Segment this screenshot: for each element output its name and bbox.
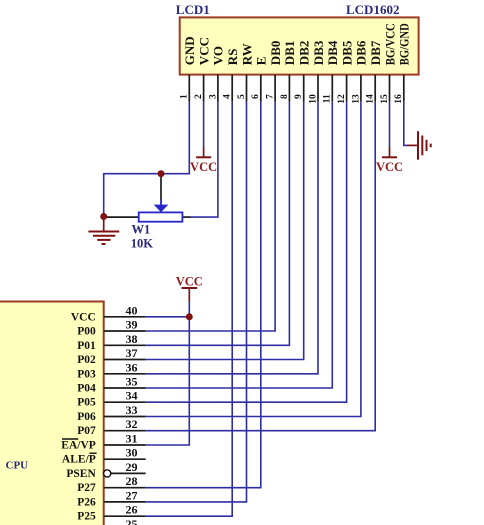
svg-text:7: 7 xyxy=(266,94,276,99)
svg-text:32: 32 xyxy=(126,417,138,431)
svg-text:26: 26 xyxy=(126,503,138,517)
svg-text:P05: P05 xyxy=(77,397,96,409)
LCD pin number 1 xyxy=(180,94,190,99)
CPU pin 28 stub xyxy=(104,487,146,489)
LCD pin 8 stub xyxy=(288,75,290,102)
LCD pin number 3 xyxy=(208,94,218,99)
CPU pin number 31 xyxy=(126,432,138,446)
CPU pin name P27 xyxy=(77,482,96,494)
junction dot at wiper/top wire xyxy=(158,170,165,177)
svg-text:LCD1602: LCD1602 xyxy=(346,2,399,17)
CPU pin 40 stub xyxy=(104,316,146,318)
power symbol VCC (LCD pin15) xyxy=(376,147,403,174)
wire LCD pin4 RS to CPU row 26 xyxy=(146,102,233,517)
svg-text:P26: P26 xyxy=(77,496,96,508)
svg-text:VCC: VCC xyxy=(71,311,96,323)
svg-text:VCC: VCC xyxy=(196,37,211,65)
CPU pin 32 stub xyxy=(104,430,146,432)
wire VCC symbol to row40 junction and down to EA/VP row31 xyxy=(146,301,190,445)
svg-text:36: 36 xyxy=(126,360,138,374)
CPU pin 29 inversion bubble xyxy=(104,470,111,477)
svg-text:RW: RW xyxy=(239,43,254,65)
svg-text:16: 16 xyxy=(394,94,404,104)
CPU pin number 28 xyxy=(126,474,138,488)
svg-text:ALE/P: ALE/P xyxy=(62,454,96,466)
svg-text:34: 34 xyxy=(126,389,138,403)
LCD pin number 10 xyxy=(308,94,318,104)
svg-text:14: 14 xyxy=(366,94,376,104)
svg-text:13: 13 xyxy=(351,94,361,104)
CPU pin number 32 xyxy=(126,417,138,431)
svg-text:27: 27 xyxy=(126,488,138,502)
CPU pin number 40 xyxy=(126,303,138,317)
LCD pin 9 stub xyxy=(303,75,305,102)
LCD pin name DB4 xyxy=(325,40,340,65)
CPU pin name P03 xyxy=(77,368,96,380)
svg-text:39: 39 xyxy=(126,318,138,332)
svg-text:4: 4 xyxy=(223,94,233,99)
CPU pin 29 stub xyxy=(104,472,146,474)
CPU pin number 36 xyxy=(126,360,138,374)
LCD pin number 8 xyxy=(280,94,290,99)
svg-text:37: 37 xyxy=(126,346,138,360)
wire LCD pin13 DB6 to CPU row 33 xyxy=(146,102,361,417)
CPU pin 26 stub xyxy=(104,515,146,517)
wire LCD pin10 DB3 to CPU row 36 xyxy=(146,102,318,374)
LCD pin number 5 xyxy=(237,94,247,99)
LCD pin name VO xyxy=(211,46,226,65)
svg-text:35: 35 xyxy=(126,375,138,389)
LCD pin number 14 xyxy=(366,94,376,104)
svg-text:8: 8 xyxy=(280,94,290,99)
CPU pin 30 stub xyxy=(104,458,146,460)
svg-text:P00: P00 xyxy=(77,326,96,338)
wire pot-left stub (black) xyxy=(104,216,139,218)
svg-text:VO: VO xyxy=(211,46,226,65)
LCD pin 13 stub xyxy=(360,75,362,102)
LCD pin name DB6 xyxy=(354,40,369,65)
svg-text:9: 9 xyxy=(294,94,304,99)
LCD pin number 16 xyxy=(394,94,404,104)
CPU pin number 33 xyxy=(126,403,138,417)
svg-text:2: 2 xyxy=(194,94,204,99)
LCD pin name DB1 xyxy=(282,41,297,66)
svg-text:DB7: DB7 xyxy=(368,40,383,65)
svg-text:P25: P25 xyxy=(77,511,96,523)
LCD pin 2 stub xyxy=(203,75,205,102)
LCD pin 11 stub xyxy=(331,75,333,102)
CPU pin 27 stub xyxy=(104,501,146,503)
CPU pin name PSEN xyxy=(66,468,96,480)
svg-text:LCD1: LCD1 xyxy=(176,2,210,17)
CPU pin name EA/VP xyxy=(61,439,96,452)
svg-text:1: 1 xyxy=(180,94,190,99)
svg-text:5: 5 xyxy=(237,94,247,99)
LCD pin 1 stub xyxy=(188,75,190,102)
CPU pin number 26 xyxy=(126,503,138,517)
svg-text:P02: P02 xyxy=(77,354,96,366)
power symbol VCC (LCD pin2) xyxy=(190,147,217,174)
svg-text:DB1: DB1 xyxy=(282,41,297,66)
svg-text:DB3: DB3 xyxy=(311,40,326,65)
wire LCD pin2 to VCC symbol xyxy=(203,102,205,147)
CPU pin number 35 xyxy=(126,375,138,389)
svg-text:30: 30 xyxy=(126,446,138,460)
LCD pin name DB0 xyxy=(268,41,283,66)
svg-text:P04: P04 xyxy=(77,383,96,395)
LCD pin name DB7 xyxy=(368,40,383,65)
label 10K xyxy=(131,237,154,251)
LCD pin name BG/GND xyxy=(397,23,412,65)
IC U-LCD body LCD1602 xyxy=(180,17,419,74)
CPU pin name P25 xyxy=(77,511,96,523)
wire LCD pin7 DB0 to CPU row 39 xyxy=(146,102,275,331)
svg-text:10K: 10K xyxy=(131,237,154,251)
svg-text:P03: P03 xyxy=(77,368,96,380)
wire LCD pin9 DB2 to CPU row 37 xyxy=(146,102,304,360)
IC CPU body xyxy=(0,302,104,525)
CPU pin number 30 xyxy=(126,446,138,460)
LCD pin number 9 xyxy=(294,94,304,99)
LCD pin name RW xyxy=(239,43,254,65)
svg-text:P01: P01 xyxy=(77,340,96,352)
svg-text:VCC: VCC xyxy=(190,160,217,174)
CPU pin name P00 xyxy=(77,326,96,338)
LCD pin name DB3 xyxy=(311,40,326,65)
CPU pin 37 stub xyxy=(104,359,146,361)
LCD pin 5 stub xyxy=(246,75,248,102)
svg-text:PSEN: PSEN xyxy=(66,468,96,480)
CPU pin name ALE/P xyxy=(62,453,97,466)
svg-text:28: 28 xyxy=(126,474,138,488)
wire LCD pin14 DB7 to CPU row 32 xyxy=(146,102,376,431)
potentiometer W1 body xyxy=(139,212,183,221)
svg-text:RS: RS xyxy=(225,49,240,66)
LCD pin 16 stub xyxy=(403,75,405,102)
LCD pin number 7 xyxy=(266,94,276,99)
svg-text:DB2: DB2 xyxy=(297,41,312,66)
svg-text:P06: P06 xyxy=(77,411,96,423)
svg-text:BG/VCC: BG/VCC xyxy=(382,23,397,65)
LCD pin number 15 xyxy=(380,94,390,104)
svg-text:VCC: VCC xyxy=(376,160,403,174)
CPU pin 35 stub xyxy=(104,387,146,389)
CPU pin name P02 xyxy=(77,354,96,366)
wire LCD pin11 DB4 to CPU row 35 xyxy=(146,102,333,388)
LCD pin number 4 xyxy=(223,94,233,99)
CPU pin name VCC xyxy=(71,311,96,323)
LCD pin 4 stub xyxy=(231,75,233,102)
potentiometer W1 wiper arrow xyxy=(154,174,169,212)
CPU pin 33 stub xyxy=(104,416,146,418)
svg-text:15: 15 xyxy=(380,94,390,104)
junction dot at pot-left/ground xyxy=(100,213,107,220)
label W1 xyxy=(132,222,151,236)
svg-text:DB6: DB6 xyxy=(354,40,369,65)
svg-text:P07: P07 xyxy=(77,425,96,437)
wire LCD pin8 DB1 to CPU row 38 xyxy=(146,102,290,346)
CPU pin number 27 xyxy=(126,488,138,502)
ground symbol (pot / LCD GND) xyxy=(88,217,119,245)
svg-text:W1: W1 xyxy=(132,222,151,236)
wire LCD pin15 to VCC symbol xyxy=(389,102,391,147)
CPU pin number 38 xyxy=(126,332,138,346)
svg-text:31: 31 xyxy=(126,432,138,446)
CPU pin 34 stub xyxy=(104,401,146,403)
wire row40 VCC net xyxy=(146,316,190,318)
CPU pin 39 stub xyxy=(104,330,146,332)
wire LCD pin3 VO to pot right terminal xyxy=(190,102,218,218)
svg-text:3: 3 xyxy=(208,94,218,99)
LCD pin name DB2 xyxy=(297,41,312,66)
designator CPU xyxy=(6,459,29,471)
CPU pin number 34 xyxy=(126,389,138,403)
svg-text:DB5: DB5 xyxy=(339,40,354,65)
CPU pin name P04 xyxy=(77,383,96,395)
CPU pin name P26 xyxy=(77,496,96,508)
wire LCD pin6 E to CPU row 28 xyxy=(146,102,261,488)
LCD pin 3 stub xyxy=(217,75,219,102)
CPU pin 31 stub xyxy=(104,444,146,446)
LCD pin 7 stub xyxy=(274,75,276,102)
svg-text:11: 11 xyxy=(323,94,333,103)
wire LCD pin16 to ground xyxy=(404,102,407,146)
LCD pin 14 stub xyxy=(374,75,376,102)
CPU pin 36 stub xyxy=(104,373,146,375)
svg-text:E: E xyxy=(254,57,269,66)
LCD pin name GND xyxy=(182,36,197,65)
CPU pin 38 stub xyxy=(104,344,146,346)
svg-text:P27: P27 xyxy=(77,482,96,494)
LCD pin number 13 xyxy=(351,94,361,104)
LCD pin 15 stub xyxy=(389,75,391,102)
svg-text:CPU: CPU xyxy=(6,459,29,471)
wire LCD pin5 RW to CPU row 27 xyxy=(146,102,247,502)
svg-text:38: 38 xyxy=(126,332,138,346)
junction dot VCC/row40 xyxy=(186,313,193,320)
wire LCD pin12 DB5 to CPU row 34 xyxy=(146,102,347,403)
LCD pin 6 stub xyxy=(260,75,262,102)
LCD pin number 11 xyxy=(323,94,333,103)
svg-text:10: 10 xyxy=(308,94,318,104)
LCD pin number 6 xyxy=(251,94,261,99)
CPU pin name P07 xyxy=(77,425,96,437)
wire pot-right stub (black) xyxy=(182,216,190,218)
power symbol VCC (CPU pin40/EA) xyxy=(176,274,203,301)
svg-text:EA/VP: EA/VP xyxy=(61,440,96,452)
LCD pin name E xyxy=(254,57,269,66)
CPU pin name P01 xyxy=(77,340,96,352)
CPU pin number 39 xyxy=(126,318,138,332)
CPU pin name P05 xyxy=(77,397,96,409)
svg-text:VCC: VCC xyxy=(176,274,203,288)
LCD pin name VCC xyxy=(196,37,211,65)
part number LCD1602 xyxy=(346,2,399,17)
wire net GND: LCD pin1 to pot-left/ground xyxy=(104,102,190,217)
designator LCD1 xyxy=(176,2,210,17)
CPU pin number 37 xyxy=(126,346,138,360)
CPU pin number 29 xyxy=(126,460,138,474)
svg-text:25: 25 xyxy=(126,517,138,525)
svg-text:29: 29 xyxy=(126,460,138,474)
svg-text:DB4: DB4 xyxy=(325,40,340,65)
LCD pin 10 stub xyxy=(317,75,319,102)
LCD pin name RS xyxy=(225,49,240,66)
svg-text:33: 33 xyxy=(126,403,138,417)
LCD pin 12 stub xyxy=(346,75,348,102)
CPU pin number 25 (partial) xyxy=(126,517,138,525)
LCD pin name DB5 xyxy=(339,40,354,65)
LCD pin number 2 xyxy=(194,94,204,99)
svg-text:12: 12 xyxy=(337,94,347,104)
svg-text:6: 6 xyxy=(251,94,261,99)
svg-text:BG/GND: BG/GND xyxy=(397,23,412,65)
svg-text:DB0: DB0 xyxy=(268,41,283,66)
CPU pin name P06 xyxy=(77,411,96,423)
ground symbol (rotated, LCD pin16) xyxy=(407,131,431,160)
LCD pin number 12 xyxy=(337,94,347,104)
svg-text:GND: GND xyxy=(182,36,197,65)
LCD pin name BG/VCC xyxy=(382,23,397,65)
svg-text:40: 40 xyxy=(126,303,138,317)
